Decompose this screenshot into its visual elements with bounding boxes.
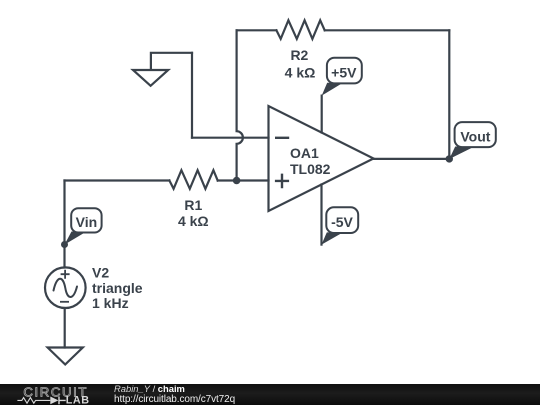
flag box: -5V <box>326 207 358 233</box>
footer bar <box>0 384 540 405</box>
svg-text:4 kΩ: 4 kΩ <box>285 65 316 81</box>
node: Vin junction <box>61 241 68 248</box>
wire: output <box>374 158 450 160</box>
node: output junction <box>446 155 453 162</box>
wire: inverting input <box>192 137 269 139</box>
url line <box>114 394 235 405</box>
op-amp pin wire: +5V supply <box>321 96 323 133</box>
op-amp OA1 triangle <box>269 106 374 211</box>
resistor R2 <box>276 20 324 39</box>
wire: feedback right vertical <box>448 30 450 159</box>
svg-text:Vout: Vout <box>460 128 490 144</box>
flag pointer: Vout <box>449 147 474 160</box>
node: junction R1 / feedback / +input <box>233 177 241 185</box>
wire: Vin vertical <box>63 181 65 245</box>
ground (top) <box>133 70 168 86</box>
wire: top ground to bend <box>151 53 192 70</box>
flag pointer: Vin <box>65 232 87 245</box>
source V2 circle <box>45 267 86 308</box>
flag pointer: -5V <box>322 232 344 244</box>
wire: feedback top-left segment <box>237 29 277 31</box>
op-amp minus symbol <box>275 137 289 139</box>
wire: feedback top-right segment <box>325 29 450 31</box>
flag box: Vin <box>71 208 101 232</box>
flag box: Vout <box>455 122 496 147</box>
op-amp pin wire: -5V supply <box>320 185 322 245</box>
svg-text:4 kΩ: 4 kΩ <box>178 213 209 229</box>
svg-text:OA1: OA1 <box>290 145 319 161</box>
svg-text:R1: R1 <box>184 197 202 213</box>
op-amp plus symbol <box>275 174 289 189</box>
svg-text:LAB: LAB <box>66 395 90 405</box>
wire: feedback left vertical with hop over inverting wire <box>237 30 243 180</box>
CircuitLab logo <box>14 384 100 405</box>
wire: Vin horizontal to R1 <box>65 179 170 181</box>
svg-text:triangle: triangle <box>92 280 143 296</box>
credit line <box>114 384 185 393</box>
wire: R1 to noninverting input <box>218 179 269 181</box>
svg-text:-5V: -5V <box>331 214 353 230</box>
svg-text:+5V: +5V <box>331 65 357 81</box>
flag box: +5V <box>327 58 362 84</box>
svg-text:V2: V2 <box>92 265 109 281</box>
ground (bottom) <box>48 348 83 365</box>
svg-text:Vin: Vin <box>76 214 98 230</box>
svg-text:R2: R2 <box>290 47 308 63</box>
source V2 sine wave <box>54 279 78 297</box>
wire: V2 bottom to ground <box>64 308 66 348</box>
svg-text:1 kHz: 1 kHz <box>92 295 129 311</box>
source V2 plus symbol <box>61 270 70 279</box>
source V2 minus symbol <box>60 301 69 303</box>
flag pointer: +5V <box>322 83 343 96</box>
wire: Vin node to V2 top <box>63 245 65 268</box>
wire: down to inverting input level <box>191 53 193 138</box>
svg-text:TL082: TL082 <box>290 161 331 177</box>
resistor R1 <box>169 170 217 189</box>
